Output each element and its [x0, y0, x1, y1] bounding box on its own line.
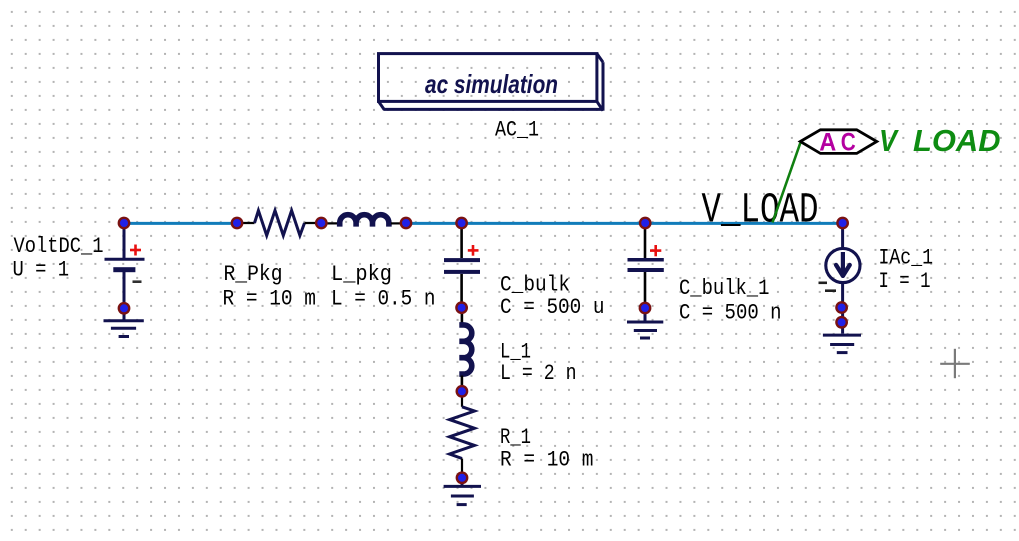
svg-text:L_pkg: L_pkg — [331, 262, 392, 287]
svg-text:R_Pkg: R_Pkg — [224, 262, 283, 287]
svg-text:V: V — [879, 123, 899, 158]
svg-text:I = 1: I = 1 — [879, 269, 931, 294]
svg-text:A: A — [819, 128, 836, 156]
svg-text:R = 10 m: R = 10 m — [223, 287, 317, 312]
svg-text:C_bulk: C_bulk — [500, 272, 570, 297]
svg-text:R = 10 m: R = 10 m — [500, 448, 594, 473]
svg-text:C: C — [841, 128, 856, 156]
svg-text:VoltDC_1: VoltDC_1 — [14, 234, 104, 259]
svg-text:U = 1: U = 1 — [13, 258, 70, 283]
svg-text:AC_1: AC_1 — [495, 118, 539, 143]
svg-text:L = 2 n: L = 2 n — [500, 361, 577, 386]
svg-text:C_bulk_1: C_bulk_1 — [679, 276, 769, 301]
svg-text:C = 500 n: C = 500 n — [679, 300, 782, 325]
svg-text:IAc_1: IAc_1 — [879, 245, 934, 270]
svg-text:LOAD: LOAD — [913, 123, 1001, 158]
svg-text:ac simulation: ac simulation — [425, 69, 558, 99]
svg-text:V_LOAD: V_LOAD — [702, 186, 819, 235]
svg-text:R_1: R_1 — [500, 425, 531, 450]
svg-text:L = 0.5 n: L = 0.5 n — [331, 287, 436, 312]
svg-text:C = 500 u: C = 500 u — [500, 295, 605, 320]
